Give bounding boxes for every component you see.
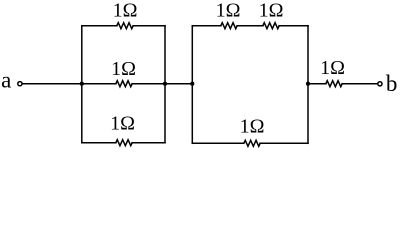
wire box1 top left segment — [82, 25, 117, 27]
wire box1 bottom right segment — [132, 142, 165, 144]
resistor R3 1ohm box1 bottom — [116, 140, 132, 146]
svg-text:1Ω: 1Ω — [113, 0, 138, 22]
wire box2 top right segment — [279, 25, 308, 27]
resistor R5 1ohm box2 top second — [263, 23, 279, 29]
junction node box1 left — [80, 82, 84, 86]
wire a to box1 left — [23, 83, 82, 85]
node a terminal circle — [18, 82, 22, 86]
svg-text:1Ω: 1Ω — [240, 115, 265, 137]
junction node box2 left — [190, 82, 194, 86]
wire box1 middle left segment — [82, 83, 116, 85]
wire box2 right to R7 — [308, 83, 326, 85]
node b terminal circle — [378, 82, 382, 86]
svg-text:b: b — [386, 71, 398, 96]
resistor R7 1ohm series right — [326, 81, 342, 87]
resistor R1 1ohm box1 top — [117, 23, 133, 29]
wire R7 to node b — [342, 83, 377, 85]
wire box1 middle right segment — [132, 83, 165, 85]
resistor R4 1ohm box2 top first — [221, 23, 237, 29]
svg-text:a: a — [1, 68, 11, 93]
wire box1 top right segment — [133, 25, 165, 27]
svg-text:1Ω: 1Ω — [216, 0, 241, 22]
wire box1 left vertical — [81, 26, 83, 143]
wire box2 bottom left segment — [192, 142, 244, 144]
junction node box1 right — [163, 82, 167, 86]
wire box2 left vertical — [191, 26, 193, 144]
svg-text:1Ω: 1Ω — [110, 112, 135, 134]
junction node box2 right — [306, 82, 310, 86]
svg-text:1Ω: 1Ω — [259, 0, 284, 22]
wire connector box1 to box2 — [165, 83, 192, 85]
svg-text:1Ω: 1Ω — [320, 57, 345, 79]
wire box2 top left segment — [192, 25, 221, 27]
wire box1 right vertical — [164, 26, 166, 143]
wire box2 top middle segment — [237, 25, 263, 27]
wire box2 bottom right segment — [260, 142, 308, 144]
svg-text:1Ω: 1Ω — [111, 58, 136, 80]
wire box1 bottom left segment — [82, 142, 116, 144]
resistor R2 1ohm box1 middle — [116, 81, 132, 87]
wire box2 right vertical — [307, 26, 309, 144]
resistor R6 1ohm box2 bottom — [244, 140, 260, 146]
